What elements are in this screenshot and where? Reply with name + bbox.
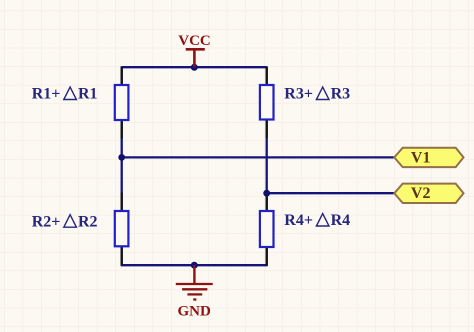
junction node GND (bottom rail): [191, 262, 198, 269]
wire bottom rail: [122, 264, 267, 266]
wire left branch upper (node V1 to R1/R2 pins): [121, 66, 123, 157]
svg-text:R1+: R1+: [32, 86, 61, 103]
svg-text:R1: R1: [78, 86, 98, 103]
svg-text:R2+: R2+: [32, 213, 61, 230]
wire output V2: [267, 192, 395, 194]
power symbol VCC (bar): [186, 49, 205, 67]
label R4+ΔR4: [284, 212, 350, 229]
wire left branch lower: [121, 157, 123, 266]
svg-text:R3: R3: [331, 86, 351, 103]
svg-text:VCC: VCC: [178, 33, 211, 49]
label R3+ΔR3: [284, 86, 350, 103]
svg-text:R2: R2: [78, 213, 98, 230]
resistor R1: [115, 67, 129, 139]
junction node VCC (top rail): [191, 64, 198, 71]
wire top rail: [122, 66, 267, 68]
port V1: [394, 148, 463, 167]
svg-text:V1: V1: [411, 149, 431, 166]
resistor R3: [260, 67, 274, 138]
wire right branch upper: [266, 66, 268, 193]
port V2: [394, 184, 463, 203]
wire right branch lower: [266, 193, 268, 266]
svg-text:GND: GND: [178, 304, 212, 320]
svg-text:R4+: R4+: [284, 212, 313, 229]
label R1+ΔR1: [32, 86, 98, 103]
junction node V1 (left branch): [118, 154, 125, 161]
resistor R2: [115, 193, 129, 266]
label R2+ΔR2: [32, 213, 98, 230]
svg-text:V2: V2: [411, 185, 431, 202]
junction node V2 (right branch): [263, 190, 270, 197]
wire output V1: [122, 156, 395, 158]
svg-text:R3+: R3+: [284, 86, 313, 103]
svg-text:R4: R4: [331, 212, 351, 229]
resistor R4: [260, 193, 274, 265]
ground symbol GND: [176, 265, 213, 299]
